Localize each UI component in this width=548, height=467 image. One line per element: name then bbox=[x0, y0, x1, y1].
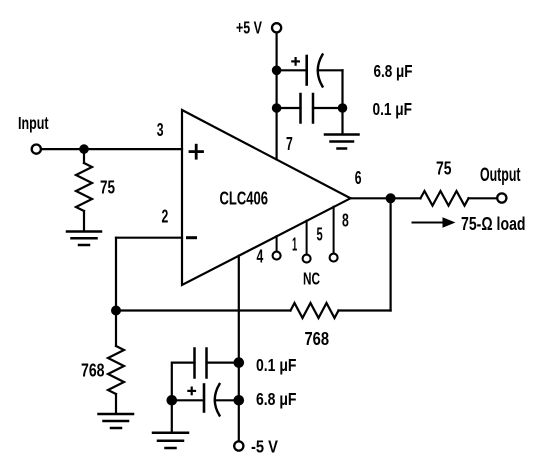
wire C 6.8uF curved plate to rail bbox=[216, 399, 239, 401]
svg-text:768: 768 bbox=[81, 361, 105, 381]
svg-text:4: 4 bbox=[257, 247, 264, 267]
wire junction to R75 bbox=[83, 149, 85, 163]
wire to op-amp -in bbox=[116, 237, 182, 239]
op-amp U1 CLC406 bbox=[182, 110, 351, 285]
svg-text:-5 V: -5 V bbox=[251, 436, 278, 456]
wire feedback right segment bbox=[339, 309, 391, 311]
ground (gain set) bbox=[99, 414, 134, 428]
wire C 0.1uF to right rail bbox=[313, 107, 343, 109]
wire resistor to output terminal bbox=[469, 197, 498, 199]
svg-text:Output: Output bbox=[480, 165, 521, 186]
-5V terminal bbox=[234, 441, 243, 450]
pin 8 NC terminal bbox=[330, 254, 338, 262]
wire junction down to R768 bbox=[115, 311, 117, 347]
wire input to op-amp +in bbox=[41, 148, 182, 150]
pin 1 NC terminal bbox=[273, 252, 281, 260]
svg-text:0.1 μF: 0.1 μF bbox=[373, 99, 413, 119]
ground (-5V bypass) bbox=[153, 433, 188, 448]
node -5V/0.1uF junction bbox=[234, 357, 245, 368]
node -5V/6.8uF junction bbox=[234, 395, 245, 406]
svg-text:768: 768 bbox=[305, 329, 330, 349]
node +5V/0.1uF junction bbox=[272, 103, 282, 113]
svg-text:7: 7 bbox=[286, 134, 293, 154]
wire output node down to feedback bbox=[390, 198, 392, 310]
node inverting input junction bbox=[111, 306, 121, 316]
pin 1 NC stub bbox=[276, 236, 278, 251]
svg-text:8: 8 bbox=[342, 211, 349, 231]
pin 5 NC stub bbox=[306, 221, 308, 255]
svg-text:3: 3 bbox=[157, 120, 164, 140]
svg-text:CLC406: CLC406 bbox=[220, 187, 269, 208]
wire +5V to pin 7 bbox=[276, 33, 278, 160]
capacitor 0.1uF (+5V bypass) bbox=[301, 94, 314, 123]
wire R768 to ground bbox=[115, 394, 117, 413]
+5V terminal bbox=[272, 23, 281, 32]
wire op-amp output to output terminal bbox=[351, 197, 421, 199]
node -5V bypass left junction bbox=[167, 395, 178, 406]
wire pin 4 down to -5V bbox=[238, 256, 240, 442]
op-amp - input symbol bbox=[188, 236, 196, 239]
wire C 0.1uF right to rail bbox=[207, 362, 239, 364]
svg-text:6.8 μF: 6.8 μF bbox=[256, 389, 297, 409]
svg-text:1: 1 bbox=[292, 235, 297, 255]
svg-text:6: 6 bbox=[355, 168, 362, 188]
svg-text:Input: Input bbox=[18, 113, 49, 133]
svg-text:+5 V: +5 V bbox=[236, 18, 262, 38]
resistor 75 (input termination) bbox=[76, 163, 92, 211]
svg-text:0.1 μF: 0.1 μF bbox=[256, 355, 297, 375]
wire left junction to ground bbox=[171, 400, 173, 431]
wire to C 6.8uF plus plate bbox=[277, 69, 306, 71]
ground (+5V bypass) bbox=[325, 135, 359, 149]
wire R75 to ground bbox=[83, 211, 85, 231]
input terminal bbox=[32, 145, 41, 154]
ground (input termination) bbox=[67, 232, 101, 246]
wire right rail down to ground bbox=[341, 70, 343, 132]
svg-text:75: 75 bbox=[100, 178, 115, 198]
svg-text:6.8 μF: 6.8 μF bbox=[374, 61, 413, 81]
node +5V/6.8uF junction bbox=[272, 66, 282, 76]
wire feedback left segment bbox=[116, 309, 291, 311]
svg-text:NC: NC bbox=[303, 269, 320, 289]
wire to C 0.1uF left plate bbox=[277, 107, 301, 109]
svg-text:75-Ω load: 75-Ω load bbox=[461, 213, 526, 234]
wire C 6.8uF to right rail bbox=[319, 69, 343, 71]
resistor 768 (feedback) bbox=[291, 303, 339, 318]
svg-text:2: 2 bbox=[162, 207, 169, 227]
resistor 768 (gain set) bbox=[108, 346, 124, 394]
node bypass right rail junction bbox=[338, 103, 348, 113]
pin 8 NC stub bbox=[333, 207, 335, 254]
resistor 75 (output series) bbox=[421, 191, 469, 206]
arrow to 75 ohm load bbox=[413, 217, 456, 227]
capacitor 6.8uF (+5V bypass, polarized) bbox=[292, 55, 322, 87]
capacitor 6.8uF (-5V bypass, polarized) bbox=[188, 384, 219, 416]
output terminal bbox=[497, 193, 506, 202]
op-amp + input symbol bbox=[190, 145, 203, 158]
node output junction bbox=[386, 193, 396, 203]
capacitor 0.1uF (-5V bypass) bbox=[195, 349, 207, 378]
svg-text:75: 75 bbox=[436, 159, 452, 179]
svg-text:5: 5 bbox=[317, 225, 323, 245]
wire junction up to -in bbox=[115, 238, 117, 311]
wire C 0.1uF left to corner bbox=[172, 363, 195, 401]
pin 5 NC terminal bbox=[303, 255, 311, 263]
wire left junction to C 6.8uF plate bbox=[172, 399, 203, 401]
node input/R75 junction bbox=[79, 144, 89, 154]
